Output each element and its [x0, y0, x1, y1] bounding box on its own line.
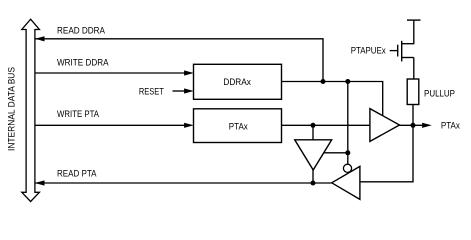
PTAx register box	[194, 109, 282, 143]
down buffer output wire	[312, 169, 314, 183]
output buffer output wire with pin arrow	[400, 124, 424, 126]
WRITE PTA arrowhead	[184, 123, 194, 128]
junction dot down buffer output / READ PTA	[311, 181, 316, 186]
VDD rail bar	[407, 19, 421, 21]
pullup MOSFET Q1	[390, 41, 414, 62]
svg-text:INTERNAL DATA BUS: INTERNAL DATA BUS	[7, 67, 18, 151]
WRITE PTA wire	[35, 124, 185, 126]
svg-text:WRITE DDRA: WRITE DDRA	[57, 58, 109, 69]
PTAx register output wire	[282, 124, 370, 126]
junction dot DDRAx out / read enable	[345, 79, 350, 84]
svg-text:READ DDRA: READ DDRA	[57, 25, 106, 36]
WRITE DDRA arrowhead	[184, 70, 194, 75]
RESET arrow wire	[173, 90, 186, 92]
svg-text:DDRAx: DDRAx	[223, 77, 251, 88]
READ DDRA wire	[35, 39, 323, 82]
read pin buffer (left triangle)	[332, 166, 360, 199]
read pin buffer enable bubble	[343, 164, 351, 172]
svg-text:PTAx: PTAx	[229, 121, 248, 132]
WRITE DDRA wire	[35, 72, 185, 74]
junction dot pin node	[411, 123, 416, 128]
read enable branch wire to down buffer	[324, 152, 348, 154]
read enable vertical wire	[347, 82, 349, 165]
READ PTA arrowhead	[35, 180, 45, 185]
RESET arrowhead	[184, 88, 194, 93]
svg-text:READ PTA: READ PTA	[57, 169, 97, 180]
MOSFET source to resistor wire	[413, 58, 415, 80]
svg-text:PULLUP: PULLUP	[424, 88, 455, 99]
pullup resistor R1	[407, 79, 419, 105]
PTAx pin arrowhead	[422, 123, 432, 128]
VDD wire to MOSFET drain	[413, 20, 415, 44]
pin feedback wire	[360, 125, 413, 182]
READ DDRA arrowhead	[35, 36, 45, 41]
DDRAx register box	[194, 64, 282, 99]
READ PTA wire	[35, 182, 332, 184]
read PTAx buffer (down triangle)	[295, 140, 332, 170]
output buffer (right triangle)	[370, 109, 400, 142]
svg-text:PTAx: PTAx	[441, 120, 460, 131]
junction dot PTAx out / down buffer	[311, 123, 316, 128]
resistor to pin node wire	[412, 105, 414, 126]
DDRAx output wire to buffer enable	[282, 82, 383, 116]
internal data bus double arrow	[22, 19, 40, 201]
svg-text:WRITE PTA: WRITE PTA	[57, 109, 99, 120]
svg-text:PTAPUEx: PTAPUEx	[351, 45, 386, 56]
down buffer input wire	[312, 125, 314, 140]
svg-text:RESET: RESET	[139, 86, 164, 97]
junction dot read enable branch	[345, 150, 350, 155]
junction dot READ DDRA / DDRAx out	[321, 79, 326, 84]
